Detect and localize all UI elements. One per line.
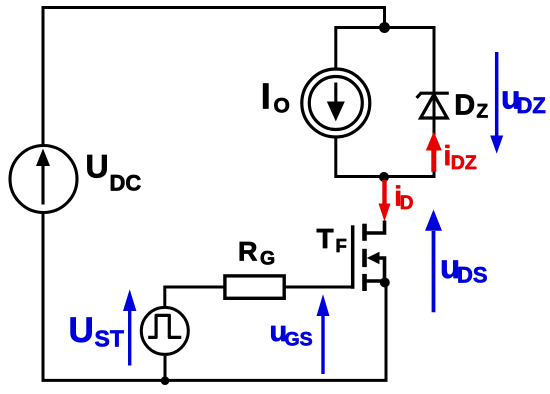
wire: upper loop top: current-source branch, second rail, diode branch: [336, 28, 434, 121]
svg-text:GS: GS: [285, 329, 313, 351]
current source I_O: [302, 69, 370, 137]
wire: upper loop bottom: source bottom, lower rail, diode anode branch: [336, 115, 434, 177]
svg-text:O: O: [274, 95, 290, 118]
svg-text:D: D: [454, 90, 475, 122]
node: source junction: [380, 278, 390, 288]
svg-text:R: R: [238, 237, 258, 267]
zener diode D_Z: [417, 93, 449, 98]
svg-text:DC: DC: [110, 171, 142, 196]
channel segment bottom: [362, 274, 367, 291]
svg-text:T: T: [317, 223, 334, 254]
node: drain junction: [379, 172, 389, 182]
svg-text:D: D: [400, 193, 414, 214]
svg-text:DS: DS: [457, 263, 488, 288]
svg-text:G: G: [260, 247, 275, 269]
pulse source U_ST: [141, 307, 188, 354]
gate bar: [351, 225, 355, 288]
svg-text:Z: Z: [477, 102, 489, 123]
current arrow i_DZ: [431, 148, 436, 172]
body arrow: [367, 252, 380, 265]
source lead: [367, 279, 385, 283]
svg-text:U: U: [69, 311, 94, 350]
voltage arrow u_DZ: [495, 52, 499, 137]
svg-text:DZ: DZ: [517, 93, 546, 118]
source U_DC: [10, 146, 77, 213]
wire: left rail bottom + bottom rail + MOSFET source column: [43, 214, 386, 380]
node: U_ST bottom junction: [161, 376, 170, 385]
resistor R_G: [165, 287, 225, 306]
wire: top rail from left rail to top junction: [43, 8, 385, 145]
channel segment top: [362, 224, 367, 241]
voltage arrow u_DS: [432, 231, 436, 312]
svg-text:DZ: DZ: [451, 152, 477, 174]
voltage arrow U_ST: [128, 309, 131, 366]
svg-text:U: U: [86, 148, 109, 184]
drain lead: [367, 221, 385, 234]
current arrow i_D: [382, 180, 386, 205]
node: top junction: [379, 22, 390, 33]
svg-text:I: I: [261, 76, 271, 117]
svg-text:ST: ST: [95, 326, 124, 352]
channel segment middle: [362, 249, 367, 267]
svg-text:F: F: [336, 235, 347, 256]
voltage arrow u_GS: [321, 315, 324, 375]
